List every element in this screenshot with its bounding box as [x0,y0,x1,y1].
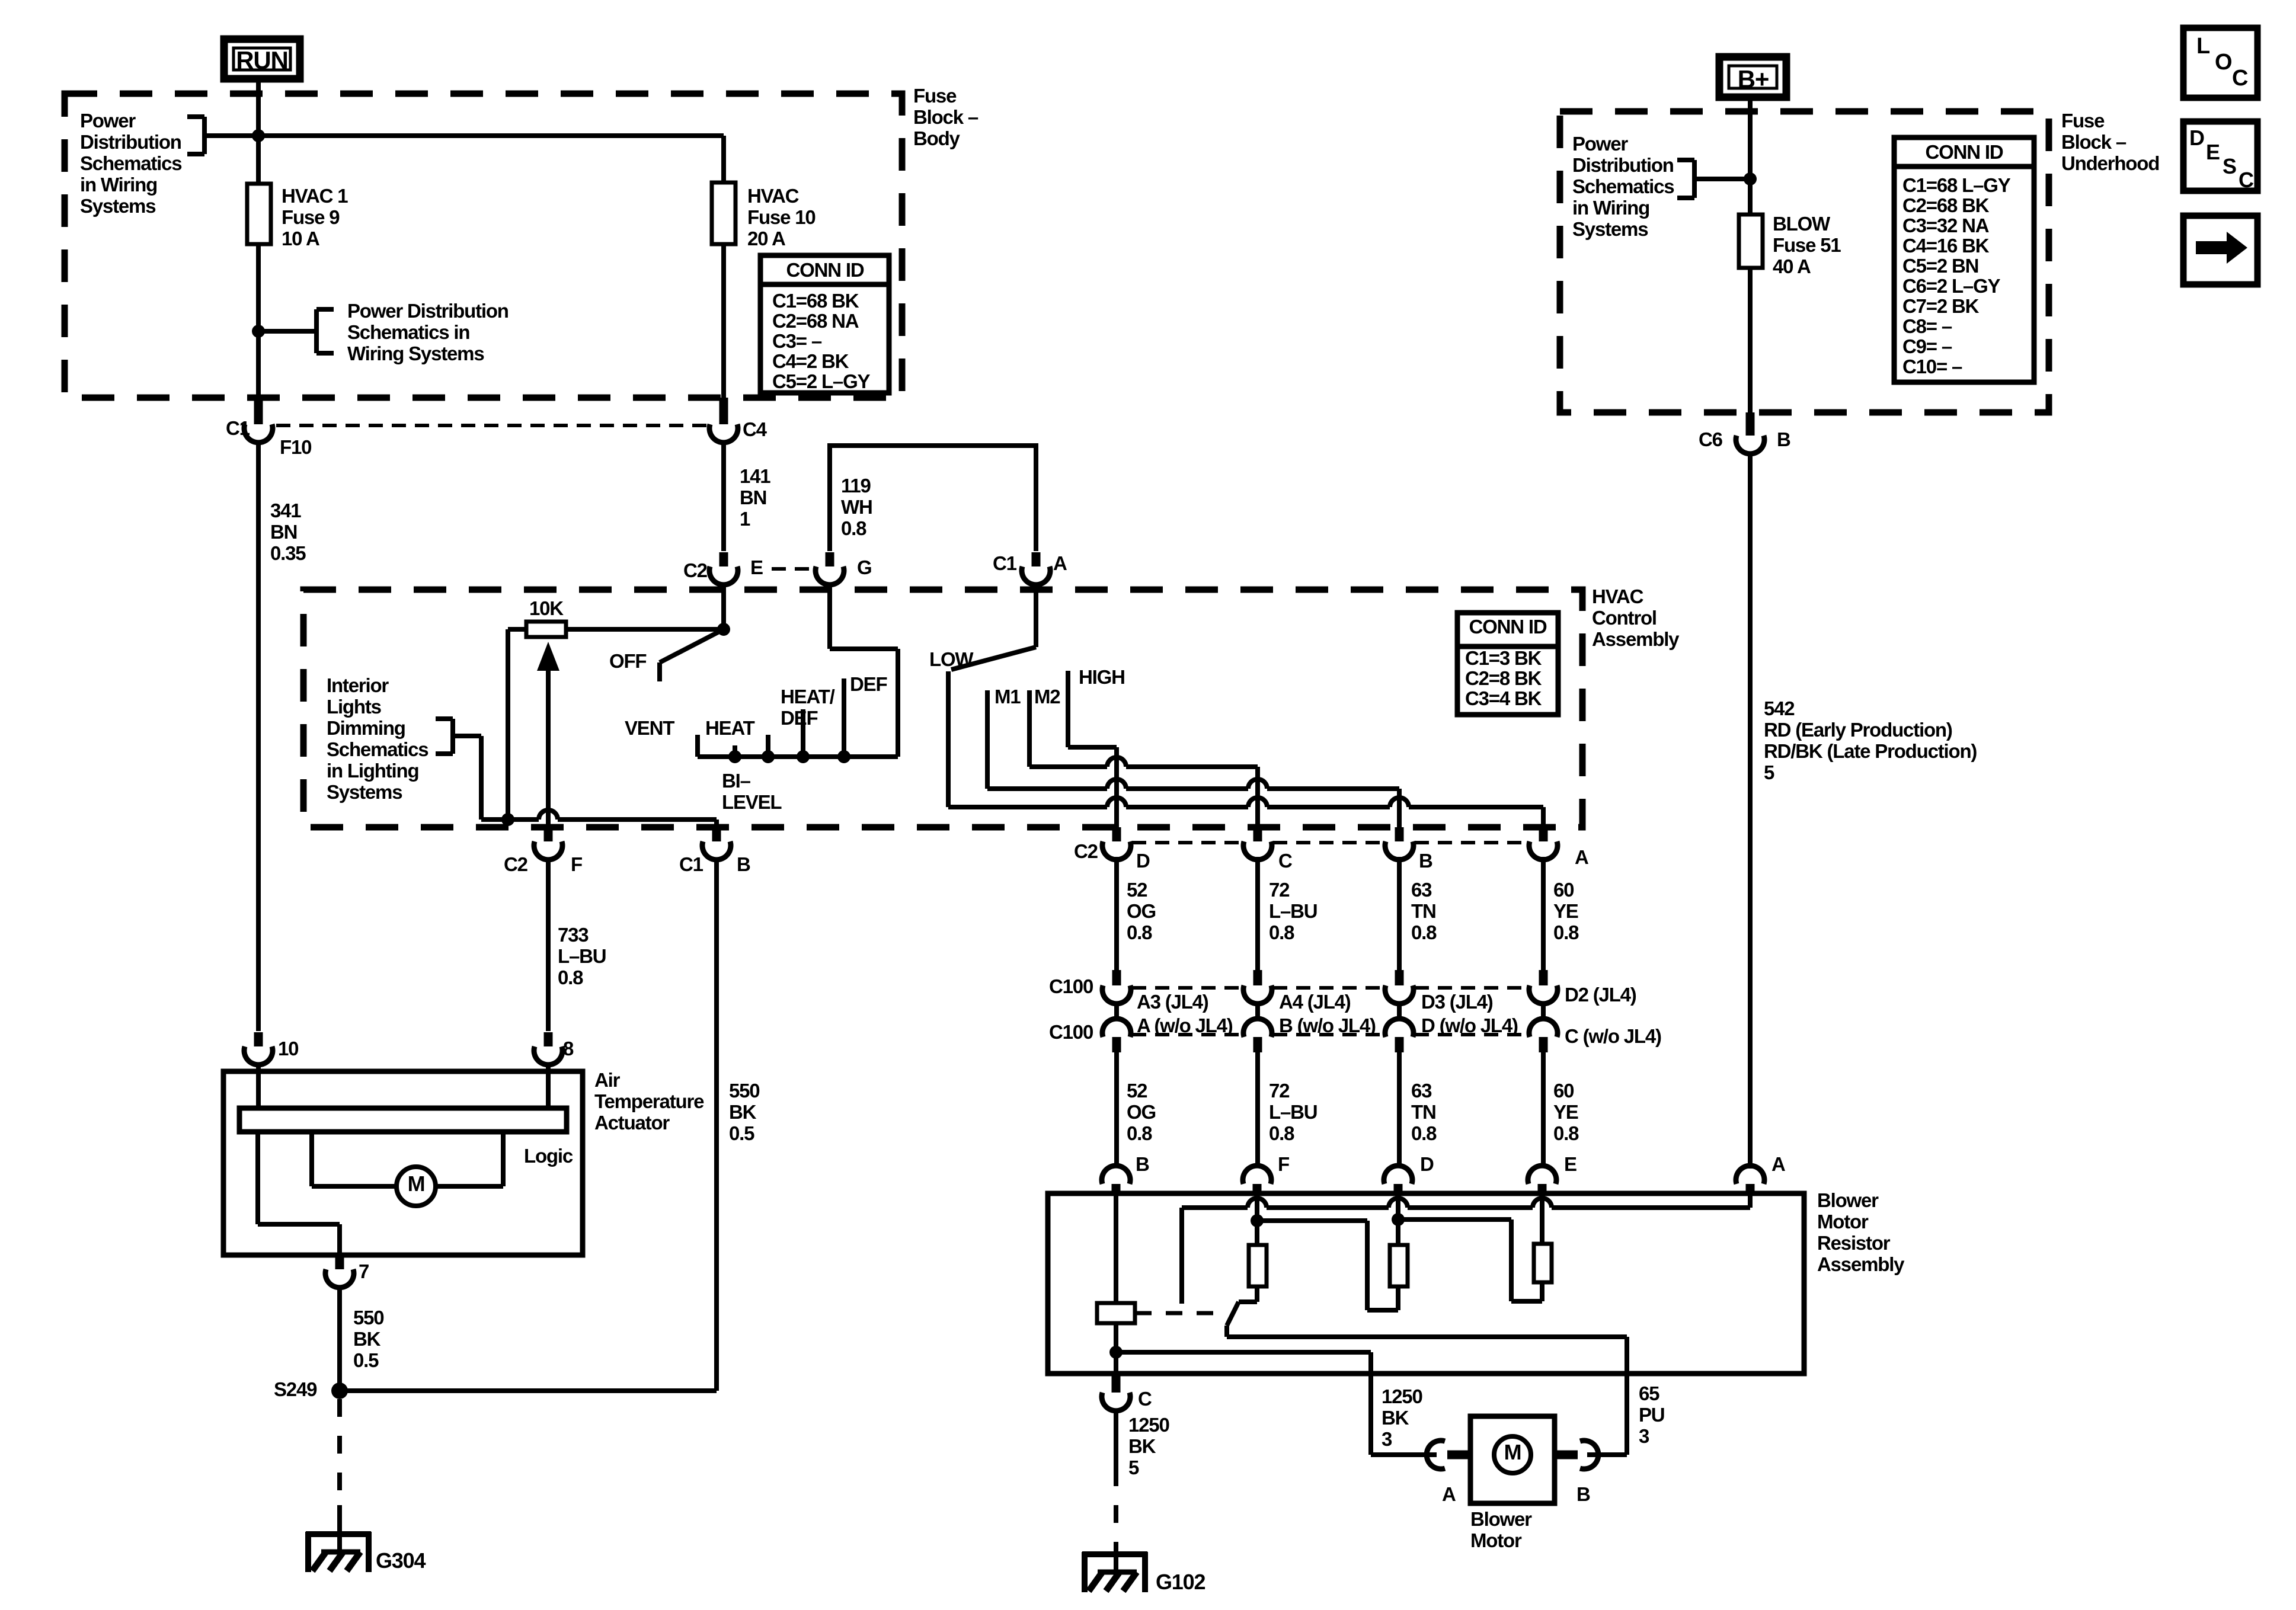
svg-text:1250: 1250 [1382,1385,1422,1407]
svg-text:Assembly: Assembly [1592,628,1680,650]
svg-text:C100: C100 [1049,975,1093,997]
connector C100 upper half x=2604 [1539,970,1548,985]
svg-text:Power: Power [1572,133,1628,155]
wire: M2 position to connector C (hops D wire) [1027,690,1032,767]
svg-text:C1: C1 [679,853,703,875]
connector line E-G (dashed) [772,567,814,571]
note: Power Distribution Schematics in Wiring Systems (bracket tap) [258,300,509,364]
svg-text:72: 72 [1269,1080,1290,1102]
junction: tap to power distribution note [1744,172,1757,185]
svg-text:Power: Power [80,110,136,132]
wire: D node over to resistor 3 bottom [1398,1217,1511,1222]
svg-text:C10= –: C10= – [1902,356,1962,377]
note: Interior Lights Dimming Schematics in Lighting Systems [327,674,481,820]
svg-text:F: F [1278,1153,1289,1175]
svg-text:D: D [1136,850,1150,872]
svg-text:Actuator: Actuator [594,1112,670,1134]
relay coil (blower high-speed relay) [1097,1303,1135,1323]
wiper arrow of 10K potentiometer [546,670,551,830]
svg-text:S249: S249 [274,1378,317,1400]
wire (dashed continuation) to G102 [1114,1468,1118,1543]
HVAC control assembly (dashed outline) [303,590,1582,827]
svg-text:G: G [857,556,871,578]
connector line C2 D-C-B-A (dashed) [1132,841,1242,844]
splice S249 [331,1382,348,1399]
svg-text:1: 1 [740,508,750,530]
wire: relay output to 65 PU [1227,1334,1627,1339]
mode position VENT [695,735,700,757]
svg-text:B: B [1777,428,1790,450]
wire: HIGH position to connector D [1066,671,1070,747]
svg-text:OG: OG [1127,900,1156,922]
icon box DESC [2183,121,2257,192]
svg-text:Dimming: Dimming [327,717,405,739]
svg-text:C3=4 BK: C3=4 BK [1465,687,1542,709]
connector pin C (resistor assembly ground) [1112,1374,1121,1393]
svg-text:Motor: Motor [1817,1211,1869,1233]
junction: RUN feed node [252,129,265,142]
svg-text:5: 5 [1764,761,1774,783]
fuse block - body (dashed outline) [65,94,902,398]
svg-text:A: A [1053,552,1067,574]
motor M (actuator logic drive) [312,1132,503,1206]
svg-text:A: A [1442,1483,1456,1505]
svg-text:Schematics in: Schematics in [347,321,469,343]
wire 65 PU to motor B [1587,1452,1627,1457]
svg-text:119: 119 [841,475,871,497]
svg-text:65: 65 [1639,1382,1659,1404]
wire: RUN feed down to Fuse 9 [256,79,261,184]
connector pin E (resistor assembly) [1528,1166,1556,1184]
svg-text:L–BU: L–BU [1269,900,1317,922]
svg-text:Temperature: Temperature [594,1090,704,1112]
switch: blower LOW position blade from A [1034,583,1038,647]
svg-text:8: 8 [563,1038,574,1060]
svg-text:OG: OG [1127,1101,1156,1123]
mode position BI-LEVEL [733,745,737,757]
svg-text:C1=3 BK: C1=3 BK [1465,647,1542,669]
fuse block - underhood (dashed outline) [1560,111,2049,412]
CONN ID table (HVAC control assembly) [1457,613,1558,715]
svg-text:0.8: 0.8 [1269,1122,1294,1144]
svg-text:0.8: 0.8 [1411,1122,1437,1144]
svg-text:52: 52 [1127,1080,1147,1102]
junction: F node [1251,1214,1264,1227]
svg-text:CONN ID: CONN ID [1469,616,1547,638]
svg-text:C2: C2 [683,559,708,581]
svg-text:LEVEL: LEVEL [722,791,782,813]
svg-text:BN: BN [740,486,766,508]
svg-text:C1: C1 [226,417,250,439]
svg-text:in Lighting: in Lighting [327,760,418,782]
svg-text:C1=68 L–GY: C1=68 L–GY [1902,174,2011,196]
wire 119 WH 0.8: loop from G up over to A [830,443,1036,448]
connector pin B [1395,827,1404,841]
svg-text:C: C [2232,66,2248,91]
junction: fan switch common [717,623,730,636]
wire: feed across to Fuse 10 [258,133,724,138]
svg-text:5: 5 [1128,1457,1139,1478]
connector pin G [826,552,834,566]
wire: relay coil to ground node [1114,1323,1118,1374]
wire: dimming feed across to connector B (hops wiper wire) [481,817,539,822]
svg-text:HVAC: HVAC [1592,585,1643,607]
svg-text:in Wiring: in Wiring [1572,197,1649,219]
svg-text:DEF: DEF [781,707,817,729]
svg-text:C5=2 L–GY: C5=2 L–GY [772,370,871,392]
svg-text:DEF: DEF [850,673,887,695]
fuse F9 (HVAC 1, 10 A) [247,184,271,244]
mode position HEAT/DEF [801,709,805,757]
svg-text:20 A: 20 A [747,228,785,249]
svg-text:Blower: Blower [1817,1189,1879,1211]
note: Power Distribution Schematics in Wiring Systems (left) [80,110,258,217]
wire: B+ down to Fuse 51 [1748,98,1753,215]
svg-text:550: 550 [729,1080,759,1102]
svg-text:L: L [2196,34,2210,59]
svg-text:L–BU: L–BU [1269,1101,1317,1123]
svg-text:C5=2 BN: C5=2 BN [1902,255,1978,277]
fuse F51 (BLOW, 40 A) [1739,215,1763,268]
svg-text:M: M [408,1172,425,1196]
svg-text:LOW: LOW [929,648,974,670]
svg-text:Fuse: Fuse [2061,110,2105,132]
svg-text:Air: Air [594,1069,621,1091]
wire 141 BN: C4 down to E [721,441,726,551]
air temperature actuator (box) [223,1071,583,1255]
svg-text:E: E [2206,140,2220,164]
svg-text:Wiring Systems: Wiring Systems [347,343,484,364]
svg-text:BK: BK [1382,1407,1409,1429]
svg-text:40 A: 40 A [1773,255,1811,277]
wire: actuator output to pin 7 [255,1132,260,1224]
resistor 10K (blower speed potentiometer) [526,622,566,637]
svg-text:Control: Control [1592,607,1657,629]
svg-text:BK: BK [1128,1435,1156,1457]
wires: four blower feed wires down to C100 [1114,857,1119,970]
svg-text:Schematics: Schematics [1572,175,1674,197]
svg-text:M1: M1 [994,686,1021,708]
svg-text:733: 733 [558,924,589,946]
svg-text:341: 341 [270,500,301,521]
junction: ground node [1109,1346,1123,1359]
svg-text:Distribution: Distribution [80,131,181,153]
svg-text:0.8: 0.8 [841,517,866,539]
svg-text:BK: BK [353,1328,381,1350]
svg-text:E: E [750,556,763,578]
svg-text:0.8: 0.8 [1269,921,1294,943]
svg-text:O: O [2215,50,2231,75]
svg-text:Schematics: Schematics [327,738,428,760]
junction: dimmer node [501,813,514,826]
svg-text:Motor: Motor [1470,1529,1522,1551]
svg-text:Systems: Systems [327,781,402,803]
svg-text:63: 63 [1411,1080,1432,1102]
svg-text:C4=2 BK: C4=2 BK [772,350,849,372]
svg-text:0.8: 0.8 [1411,921,1437,943]
svg-text:Systems: Systems [1572,218,1648,240]
icon box LOC [2183,28,2257,98]
mode position HEAT [766,735,770,757]
svg-text:Fuse 51: Fuse 51 [1773,234,1841,256]
wire: S249 to 550 BK from C1/B [340,1388,717,1393]
wire: 10K left lead [508,627,526,632]
svg-text:0.8: 0.8 [1127,1122,1152,1144]
switch: relay contact blade [1239,1299,1257,1304]
connector C6 pin B [1746,412,1755,436]
connector pin 10 (actuator) [254,1032,263,1046]
connector pin B (resistor assembly) [1102,1166,1130,1184]
CONN ID table (fuse block body) [760,255,889,393]
svg-text:3: 3 [1382,1428,1392,1450]
potentiometer track (actuator) [239,1108,567,1132]
svg-text:Distribution: Distribution [1572,154,1674,176]
connector B+ (battery feed box) [1719,57,1786,97]
connector C100 lower half x=2122 [1243,1019,1272,1037]
wire: A feed to relay contact (hops E,D,F wires) [1748,1196,1753,1208]
connector pin A (resistor assembly) [1736,1166,1764,1184]
junction: tap to power distribution note [252,325,265,338]
wire: B down to relay coil [1114,1196,1118,1303]
svg-text:Blower: Blower [1470,1508,1532,1530]
wire 1250 BK: down toward G102 [1114,1409,1118,1468]
svg-text:D (w/o JL4): D (w/o JL4) [1421,1014,1518,1036]
svg-text:BK: BK [729,1101,757,1123]
svg-text:60: 60 [1553,879,1574,901]
svg-text:10K: 10K [529,597,564,619]
connector C1 pin F10 [254,398,263,424]
svg-text:7: 7 [359,1260,369,1282]
svg-text:RUN: RUN [236,46,287,74]
connector pin 8 (actuator) [544,1032,553,1046]
note: Power Distribution Schematics in Wiring Systems (underhood) [1572,133,1750,240]
resistor (blower, low speed) [1249,1245,1267,1286]
svg-text:TN: TN [1411,900,1436,922]
connector pin C [1253,827,1262,841]
connector pin B (blower motor) [1555,1451,1578,1459]
wire: F node over to resistor 2 bottom [1257,1218,1367,1223]
svg-text:542: 542 [1764,697,1795,719]
connector C100 upper half x=1884 [1112,970,1121,985]
svg-text:B (w/o JL4): B (w/o JL4) [1279,1014,1376,1036]
svg-text:D: D [1420,1153,1434,1175]
svg-text:D2 (JL4): D2 (JL4) [1565,984,1636,1006]
wire: 10K right lead to OFF node [566,627,724,632]
svg-text:M: M [1504,1440,1521,1464]
svg-text:L–BU: L–BU [558,945,606,967]
ground G304 [306,1531,371,1537]
wire: LOW position to connector A (hops D,C,B wires) [946,671,951,807]
svg-text:C1=68 BK: C1=68 BK [772,290,859,312]
connector pin 7 (actuator) [335,1255,344,1269]
svg-text:0.8: 0.8 [1553,921,1579,943]
mode position DEF [842,678,846,757]
svg-text:B: B [1576,1483,1590,1505]
wire 542 RD: C6 down to blower resistor pin A [1748,452,1753,1169]
wire: E down to switch node [721,583,726,629]
connector C2 pin D [1112,827,1121,841]
svg-text:Lights: Lights [327,696,381,718]
svg-text:C2: C2 [504,853,528,875]
connector C1 pin B [712,827,721,841]
svg-text:0.5: 0.5 [353,1349,379,1371]
svg-text:HVAC: HVAC [747,185,799,207]
svg-text:C: C [2239,168,2254,192]
wire: E down through resistor 3 [1540,1196,1544,1244]
svg-text:F: F [571,853,582,875]
wire: mode switch position line [698,754,898,759]
svg-text:10: 10 [278,1038,298,1060]
svg-text:in Wiring: in Wiring [80,174,157,196]
svg-text:A: A [1771,1153,1785,1175]
wire: ground node to motor return [1116,1350,1371,1355]
connector C100 upper half x=2122 [1253,970,1262,985]
svg-text:63: 63 [1411,879,1432,901]
wire 733 L-BU: F down to actuator pin 8 [546,858,551,1031]
svg-text:B+: B+ [1738,65,1769,93]
svg-text:0.8: 0.8 [1127,921,1152,943]
svg-text:Logic: Logic [524,1145,573,1167]
svg-text:1250: 1250 [1128,1414,1169,1436]
junction: D node [1392,1213,1405,1226]
svg-text:PU: PU [1639,1404,1664,1426]
switch: fan OFF position blade [660,629,724,662]
svg-text:C: C [1138,1388,1152,1410]
blower motor resistor assembly (box) [1048,1193,1804,1374]
svg-text:BN: BN [270,521,297,543]
svg-text:Fuse 9: Fuse 9 [282,206,340,228]
svg-text:B: B [1136,1153,1149,1175]
svg-text:HIGH: HIGH [1079,666,1125,688]
svg-text:C6=2 L–GY: C6=2 L–GY [1902,275,2001,297]
svg-text:E: E [1564,1153,1576,1175]
connector RUN (ignition feed box) [224,39,300,79]
svg-text:Underhood: Underhood [2061,152,2159,174]
svg-text:RD/BK (Late Production): RD/BK (Late Production) [1764,740,1977,762]
svg-text:B: B [1419,850,1432,872]
svg-text:Systems: Systems [80,195,155,217]
svg-text:B: B [737,853,750,875]
svg-text:52: 52 [1127,879,1147,901]
svg-text:A4 (JL4): A4 (JL4) [1279,991,1351,1013]
connector C100 lower half x=2361 [1385,1019,1414,1037]
svg-text:C3= –: C3= – [772,330,822,352]
svg-text:HVAC 1: HVAC 1 [282,185,348,207]
svg-text:60: 60 [1553,1080,1574,1102]
svg-text:C9= –: C9= – [1902,335,1952,357]
svg-text:10 A: 10 A [282,228,319,249]
svg-text:CONN ID: CONN ID [1926,141,2003,163]
svg-text:BLOW: BLOW [1773,213,1831,235]
switch: mode selector common from G [827,583,832,649]
connector line C100 row 1 (dashed) [1132,986,1242,990]
svg-text:HEAT/: HEAT/ [781,686,835,708]
svg-text:C100: C100 [1049,1021,1093,1043]
wire (dashed continuation) to G304 [337,1399,342,1505]
svg-text:VENT: VENT [625,717,674,739]
wire: Fuse 10 to connector C4 [721,244,726,398]
connector C2 pin E [720,552,728,566]
svg-text:S: S [2223,154,2236,178]
connector C100 lower half x=2604 [1529,1019,1558,1037]
svg-text:WH: WH [841,496,872,518]
connector pin F (resistor assembly) [1243,1166,1271,1184]
svg-text:0.5: 0.5 [729,1122,754,1144]
svg-text:141: 141 [740,465,770,487]
ground G102 [1082,1551,1147,1557]
svg-text:C2: C2 [1074,840,1098,862]
svg-text:M2: M2 [1034,686,1060,708]
svg-text:Body: Body [913,127,961,149]
wire: pin 10 into actuator [256,1063,261,1108]
wire 550 BK: pin 7 down to S249 [337,1286,342,1384]
svg-text:0.35: 0.35 [270,542,306,564]
svg-text:G304: G304 [376,1548,426,1573]
svg-text:72: 72 [1269,879,1290,901]
svg-text:TN: TN [1411,1101,1436,1123]
svg-text:Assembly: Assembly [1817,1253,1905,1275]
connector C2 pin F [544,827,553,841]
svg-text:A: A [1575,846,1588,868]
svg-text:C: C [1278,850,1292,872]
connector C4 [720,398,728,424]
connector line C1-C4 (dashed) [276,424,708,427]
svg-text:Fuse 10: Fuse 10 [747,206,816,228]
svg-text:BI–: BI– [722,770,751,792]
svg-text:G102: G102 [1156,1570,1205,1594]
resistor (blower, medium speed) [1390,1245,1408,1286]
wire: Fuse 9 to connector C1 [256,244,261,398]
svg-text:D: D [2189,126,2204,150]
svg-text:A (w/o JL4): A (w/o JL4) [1137,1014,1233,1036]
connector C100 lower half x=1884 [1102,1019,1131,1037]
svg-text:C2=68 BK: C2=68 BK [1902,194,1990,216]
svg-text:C1: C1 [993,552,1017,574]
icon box arrow (continuation) [2183,216,2257,284]
wire 550 BK: C1/B down to S249 [714,858,719,1391]
svg-text:0.8: 0.8 [1553,1122,1579,1144]
connector pin A (blower motor) [1447,1451,1470,1459]
svg-text:HEAT: HEAT [705,717,755,739]
wire: Fuse 51 to connector C6 [1748,268,1753,412]
svg-text:C6: C6 [1699,428,1723,450]
connector C1 pin A [1032,552,1041,566]
svg-text:Block –: Block – [913,106,978,128]
svg-text:3: 3 [1639,1425,1649,1447]
wire: F down through resistor 1 [1255,1196,1259,1245]
svg-text:C8= –: C8= – [1902,315,1952,337]
resistor (blower, high-medium speed) [1534,1244,1552,1282]
svg-text:Block –: Block – [2061,131,2126,153]
CONN ID table (fuse block underhood) [1894,137,2034,382]
svg-text:C2=68 NA: C2=68 NA [772,310,859,332]
wire: D down through resistor 2 [1396,1196,1400,1245]
wire: down to Fuse 10 [721,136,726,183]
svg-text:YE: YE [1553,1101,1578,1123]
svg-text:A3 (JL4): A3 (JL4) [1137,991,1208,1013]
svg-text:0.8: 0.8 [558,966,583,988]
svg-text:D3 (JL4): D3 (JL4) [1421,991,1493,1013]
connector pin A [1539,827,1548,841]
svg-text:C3=32 NA: C3=32 NA [1902,215,1989,236]
svg-text:OFF: OFF [609,650,646,672]
wire: M1 position to connector B (hops D,C wires) [985,690,990,789]
svg-text:C7=2 BK: C7=2 BK [1902,295,1980,317]
svg-text:Resistor: Resistor [1817,1232,1891,1254]
connector pin D (resistor assembly) [1384,1166,1412,1184]
relay linkage (dashed) [1135,1311,1222,1315]
svg-text:550: 550 [353,1307,383,1329]
